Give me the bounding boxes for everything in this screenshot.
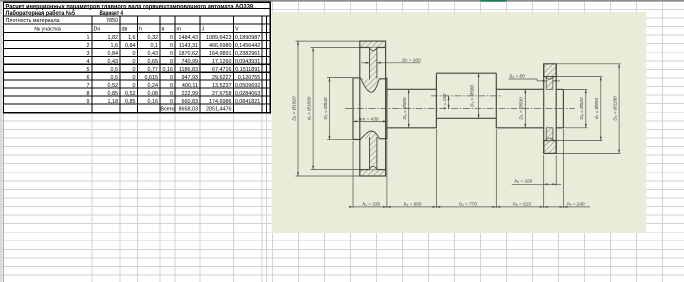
svg-text:1: 1	[87, 35, 90, 41]
svg-text:h₅ = 615: h₅ = 615	[513, 202, 531, 207]
svg-text:0,08: 0,08	[148, 91, 159, 97]
flywheel right face	[385, 48, 387, 170]
hub right face / step to shaft	[386, 78, 388, 140]
dimension d9 diameter 850	[556, 77, 602, 141]
svg-text:D₂ = Ø840: D₂ = Ø840	[323, 97, 328, 119]
svg-text:V: V	[235, 27, 239, 33]
dimension D4 diameter 580	[478, 73, 480, 118]
svg-text:0,1: 0,1	[151, 43, 159, 49]
shaft section O520 outline	[556, 88, 563, 90]
svg-text:7850: 7850	[106, 18, 118, 24]
hub top line	[353, 77, 361, 79]
svg-text:d₁ = Ø1600: d₁ = Ø1600	[306, 96, 311, 120]
svg-text:Вариант 4: Вариант 4	[100, 10, 124, 17]
dimension D3 diameter 500	[408, 89, 410, 128]
svg-text:S₂ = 80: S₂ = 80	[509, 73, 525, 78]
svg-text:0,1511891: 0,1511891	[235, 67, 260, 73]
right flange right face	[555, 64, 557, 154]
shaft section C O500 outline	[496, 88, 543, 90]
right flange rim top (hatched)	[544, 64, 557, 77]
top window edge band	[0, 0, 684, 2]
svg-text:466,6980: 466,6980	[209, 43, 231, 49]
svg-text:0: 0	[170, 99, 173, 105]
svg-text:m: m	[177, 27, 182, 33]
svg-text:0,120755: 0,120755	[238, 75, 260, 81]
dimension labels rotated	[291, 57, 617, 206]
dimension D9 diameter 1180	[556, 64, 620, 154]
svg-text:0,16: 0,16	[163, 67, 174, 73]
svg-text:h: h	[139, 27, 142, 33]
left window edge band	[0, 2, 2, 282]
svg-text:J: J	[202, 27, 205, 33]
svg-text:e = 160: e = 160	[442, 93, 447, 109]
svg-text:1143,31: 1143,31	[179, 43, 198, 49]
dimension S2=80 flange web thickness leader	[509, 79, 561, 81]
svg-text:D₁ = Ø1820: D₁ = Ø1820	[291, 96, 296, 121]
svg-text:h₈ = 160: h₈ = 160	[515, 179, 533, 184]
svg-text:740,99: 740,99	[182, 59, 199, 65]
svg-text:0: 0	[133, 59, 136, 65]
eccentric O580 outline	[436, 72, 496, 74]
svg-text:2051,4476: 2051,4476	[206, 107, 231, 113]
svg-text:0: 0	[133, 75, 136, 81]
svg-text:6: 6	[87, 75, 90, 81]
svg-text:1484,43: 1484,43	[179, 35, 199, 41]
svg-text:0,52: 0,52	[108, 83, 119, 89]
svg-text:0,43: 0,43	[148, 51, 159, 57]
flange web fillet notches	[546, 77, 553, 140]
svg-text:Dн: Dн	[94, 27, 101, 33]
svg-text:Sc = 100: Sc = 100	[402, 57, 421, 62]
flywheel rim bottom (hatched)	[360, 170, 386, 176]
svg-text:174,6986: 174,6986	[209, 99, 231, 105]
svg-text:660,83: 660,83	[182, 99, 199, 105]
chain dimension arrows	[349, 206, 567, 208]
table black gridlines	[3, 2, 271, 113]
right flange rim bottom (hatched)	[544, 141, 557, 154]
beige drawing background	[272, 12, 647, 233]
shaft section A O500 outline	[387, 88, 437, 90]
svg-text:0: 0	[170, 51, 173, 57]
svg-text:3: 3	[87, 51, 90, 57]
svg-text:0,43: 0,43	[108, 59, 119, 65]
svg-text:1089,6423: 1089,6423	[206, 35, 231, 41]
svg-text:в: в	[162, 27, 165, 33]
svg-text:8: 8	[87, 91, 90, 97]
eccentric centerline	[431, 95, 502, 97]
svg-text:0,84: 0,84	[108, 51, 119, 57]
svg-text:222,99: 222,99	[182, 91, 199, 97]
chain dimension line	[353, 206, 590, 208]
svg-text:h₃ = 650: h₃ = 650	[404, 202, 422, 207]
svg-text:h₇ = 240: h₇ = 240	[567, 202, 585, 207]
svg-text:2: 2	[87, 43, 90, 49]
svg-text:Лабораторная работа №5: Лабораторная работа №5	[6, 10, 76, 17]
svg-text:0: 0	[170, 59, 173, 65]
flywheel web bottom fillet curve	[361, 131, 380, 139]
dimension D5 diameter 500	[524, 89, 526, 128]
svg-text:0,1890987: 0,1890987	[235, 35, 260, 41]
svg-text:0,0509692: 0,0509692	[235, 83, 260, 89]
svg-text:164,9891: 164,9891	[209, 51, 231, 57]
svg-text:h₄ = 770: h₄ = 770	[459, 202, 477, 207]
svg-text:4: 4	[87, 59, 90, 65]
svg-text:1870,62: 1870,62	[179, 51, 199, 57]
selected column green indicator in header band	[480, 0, 507, 2]
svg-text:0,615: 0,615	[145, 75, 159, 81]
svg-text:0,52: 0,52	[125, 91, 136, 97]
hub left face	[352, 78, 354, 140]
svg-text:0: 0	[170, 91, 173, 97]
dimension ht=430 hub length	[353, 120, 387, 122]
dimension D6 diameter 520	[563, 89, 587, 127]
svg-text:0,24: 0,24	[148, 83, 159, 89]
hub bottom line	[353, 139, 361, 141]
table white background	[3, 2, 271, 113]
svg-text:27,6758: 27,6758	[212, 91, 232, 97]
svg-text:№ участка: № участка	[34, 27, 60, 33]
svg-text:7: 7	[87, 83, 90, 89]
flywheel web (hatched) top	[370, 48, 377, 81]
dimension h8=160 flange rim width	[512, 155, 561, 208]
svg-text:Плотность материала: Плотность материала	[6, 18, 60, 24]
svg-text:1,18: 1,18	[108, 99, 119, 105]
dimension Sc=100 web thickness leader	[362, 62, 421, 64]
svg-text:67,4716: 67,4716	[212, 67, 232, 73]
svg-text:9: 9	[87, 99, 90, 105]
svg-text:D₉ = Ø1180: D₉ = Ø1180	[612, 96, 617, 121]
flywheel rim top (hatched)	[360, 41, 386, 47]
right flange left face	[543, 64, 545, 154]
svg-text:1,6: 1,6	[111, 43, 119, 49]
svg-text:0,65: 0,65	[148, 59, 159, 65]
svg-text:5: 5	[87, 67, 90, 73]
svg-text:D₆ = Ø520: D₆ = Ø520	[579, 97, 584, 119]
svg-text:0,5: 0,5	[111, 67, 119, 73]
svg-text:29,6227: 29,6227	[212, 75, 232, 81]
table header row text	[34, 27, 239, 33]
flywheel web top fillet curve	[361, 78, 380, 92]
svg-text:D₄ = Ø580: D₄ = Ø580	[470, 85, 475, 107]
svg-text:0,32: 0,32	[148, 35, 159, 41]
dimension D1 diameter 1820	[296, 41, 360, 176]
flywheel web (hatched) bottom	[370, 137, 377, 170]
main centerline	[345, 108, 575, 110]
svg-text:D₅ = Ø500: D₅ = Ø500	[519, 97, 524, 119]
svg-text:D₃ = Ø500: D₃ = Ø500	[402, 97, 407, 119]
svg-text:0: 0	[170, 83, 173, 89]
svg-text:0,0841821: 0,0841821	[235, 99, 260, 105]
svg-text:0: 0	[170, 35, 173, 41]
svg-text:1,82: 1,82	[108, 35, 119, 41]
svg-text:0,85: 0,85	[125, 99, 136, 105]
chain dimension extension lines	[353, 129, 563, 208]
svg-text:8658,03: 8658,03	[179, 107, 199, 113]
svg-text:0,2382961: 0,2382961	[235, 51, 260, 57]
right flange web bottom (hatched)	[546, 128, 553, 141]
svg-text:d₉ = Ø850: d₉ = Ø850	[594, 97, 599, 119]
shaft right end face	[562, 89, 564, 127]
svg-text:0,0284063: 0,0284063	[235, 91, 260, 97]
dimension d1 diameter 1600	[311, 48, 360, 170]
svg-text:0: 0	[170, 75, 173, 81]
svg-text:h₂ = 330: h₂ = 330	[363, 202, 381, 207]
table data rows	[87, 35, 261, 112]
svg-text:dв: dв	[122, 27, 128, 33]
svg-text:1186,83: 1186,83	[179, 67, 198, 73]
dimension D2 diameter 840	[327, 78, 353, 140]
right flange web top (hatched)	[546, 77, 553, 90]
svg-text:0,5: 0,5	[111, 75, 119, 81]
svg-text:947,93: 947,93	[182, 75, 199, 81]
svg-text:0,85: 0,85	[108, 91, 119, 97]
svg-text:0: 0	[133, 83, 136, 89]
svg-text:0,1456442: 0,1456442	[235, 43, 260, 49]
svg-text:1,6: 1,6	[128, 35, 136, 41]
svg-text:0,77: 0,77	[148, 67, 159, 73]
svg-text:0,0943931: 0,0943931	[235, 59, 260, 65]
svg-text:hт = 430: hт = 430	[359, 116, 379, 121]
svg-text:0: 0	[170, 43, 173, 49]
svg-text:0: 0	[133, 51, 136, 57]
flywheel web fillet notches	[370, 48, 377, 169]
svg-text:17,1260: 17,1260	[212, 59, 232, 65]
svg-text:0,16: 0,16	[148, 99, 159, 105]
svg-text:0: 0	[133, 67, 136, 73]
flywheel left face	[359, 48, 361, 170]
svg-text:0,84: 0,84	[125, 43, 136, 49]
svg-text:13,5237: 13,5237	[212, 83, 232, 89]
dimension e=160 eccentricity	[448, 96, 450, 109]
svg-text:Всего: Всего	[160, 107, 174, 113]
svg-text:400,11: 400,11	[182, 83, 198, 89]
left column A darker border line	[2, 2, 4, 282]
